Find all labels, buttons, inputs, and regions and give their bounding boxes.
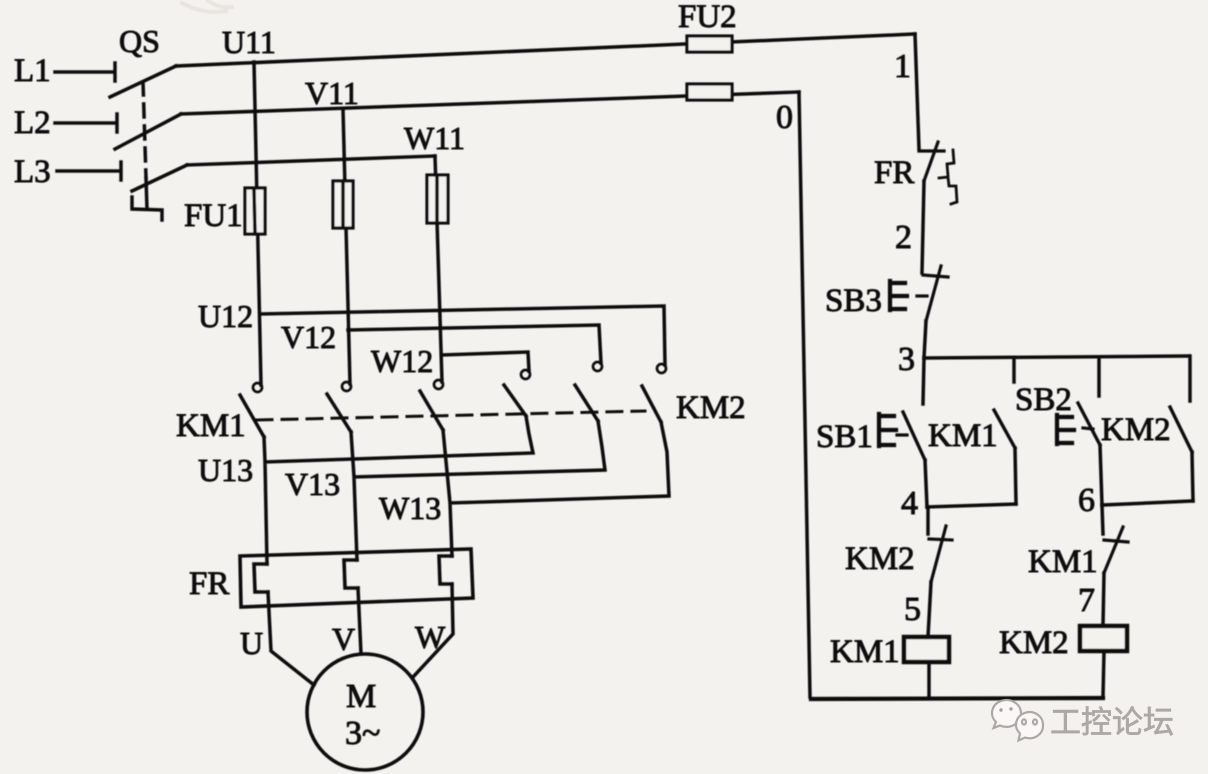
wire node4 bus	[927, 504, 1016, 507]
svg-text:SB1: SB1	[816, 419, 873, 455]
coil KM2	[999, 625, 1127, 661]
wire node2	[922, 181, 924, 273]
wire V11 vertical	[343, 109, 350, 384]
wire node5	[928, 582, 931, 637]
svg-text:W11: W11	[404, 120, 465, 156]
svg-text:FR: FR	[189, 566, 229, 602]
wire FR to motor W	[413, 584, 453, 677]
watermark logo	[992, 700, 1043, 740]
svg-text:U12: U12	[198, 298, 253, 334]
wire V13 bus	[351, 421, 605, 560]
svg-text:5: 5	[904, 591, 921, 628]
wire bottom bus	[811, 698, 1103, 699]
node L3	[14, 154, 121, 190]
svg-text:KM1: KM1	[830, 634, 900, 670]
MAIN_CIRCUIT_START	[182, 1, 232, 12]
wire V11 bus	[181, 92, 799, 114]
wire KM1 coil to bus	[927, 662, 931, 698]
wire U11 bus	[176, 34, 915, 66]
svg-text:W12: W12	[371, 343, 433, 379]
wire V12 to contact5	[348, 325, 601, 363]
thermal relay FR heaters	[189, 549, 473, 607]
node L2	[14, 105, 117, 141]
svg-text:KM1: KM1	[176, 408, 246, 444]
wire drop to KM2 aux	[1188, 356, 1192, 401]
wire W12 to contact4	[442, 352, 529, 371]
pushbutton SB2	[1015, 382, 1102, 505]
svg-text:KM2: KM2	[845, 541, 915, 577]
wire mechanical linkage dashed	[257, 411, 645, 420]
wire SB1 to node4	[925, 460, 927, 507]
svg-text:M: M	[346, 678, 376, 715]
svg-text:L2: L2	[14, 105, 51, 141]
wire KM2 coil to bus	[1103, 651, 1104, 697]
svg-text:4: 4	[901, 485, 918, 522]
pushbutton SB1	[816, 412, 925, 460]
svg-text:3~: 3~	[345, 715, 380, 752]
node L1	[14, 53, 115, 89]
svg-text:6: 6	[1078, 482, 1095, 519]
thermal relay FR contact	[874, 142, 957, 204]
wire FR to motor U	[268, 592, 314, 685]
motor M 3~	[307, 654, 423, 770]
svg-text:KM2: KM2	[1101, 412, 1171, 448]
wire U12 to contact6	[260, 306, 665, 365]
coil KM1	[830, 634, 949, 670]
contactor KM1 main contacts	[176, 380, 443, 444]
wire drop to KM1 aux	[1012, 358, 1016, 382]
svg-text:V: V	[332, 621, 355, 657]
contact KM2 interlock	[845, 507, 952, 582]
wire node3 to SB1	[923, 358, 924, 404]
svg-text:L3: L3	[14, 154, 51, 190]
svg-text:KM1: KM1	[928, 418, 998, 454]
svg-text:L1: L1	[14, 53, 51, 89]
svg-text:U: U	[240, 625, 263, 661]
svg-text:V12: V12	[281, 319, 336, 355]
svg-text:0: 0	[776, 99, 793, 136]
wire U13 bus	[264, 416, 533, 564]
svg-text:工控论坛: 工控论坛	[1050, 705, 1174, 740]
svg-text:FU1: FU1	[184, 198, 243, 234]
svg-text:7: 7	[1078, 582, 1095, 619]
svg-text:SB3: SB3	[825, 283, 882, 319]
svg-text:KM2: KM2	[999, 625, 1069, 661]
contact KM1 auxiliary	[928, 410, 1016, 504]
svg-text:KM1: KM1	[1028, 544, 1098, 580]
wire W11 vertical	[435, 156, 442, 382]
svg-text:FU2: FU2	[678, 0, 737, 35]
wire U11 vertical	[254, 62, 261, 385]
wire node1 drop	[915, 34, 919, 149]
wire W11 bus	[187, 156, 435, 165]
svg-text:U13: U13	[198, 452, 253, 488]
contactor KM2 main contacts	[504, 362, 746, 426]
wire node3 bus	[924, 356, 1189, 358]
wire node6 bus	[1102, 501, 1193, 505]
svg-text:W13: W13	[379, 490, 441, 526]
pushbutton SB3	[825, 266, 948, 321]
svg-text:W: W	[415, 619, 446, 655]
switch QS	[110, 23, 187, 220]
svg-text:V13: V13	[285, 466, 340, 502]
wire node7	[1103, 573, 1104, 626]
wire drop to SB2	[1097, 357, 1101, 396]
contact KM2 auxiliary	[1101, 407, 1193, 501]
svg-text:1: 1	[894, 48, 911, 85]
svg-text:FR: FR	[874, 155, 914, 191]
wire node3	[924, 321, 926, 358]
wire FR to motor V	[358, 588, 361, 654]
wire node0 drop	[799, 92, 810, 697]
contact KM1 interlock	[1028, 505, 1128, 580]
fuse FU1	[184, 175, 448, 234]
svg-text:KM2: KM2	[676, 390, 746, 426]
svg-text:V11: V11	[305, 75, 359, 111]
svg-text:QS: QS	[119, 23, 160, 59]
wire W13 bus	[443, 422, 669, 556]
svg-text:U11: U11	[222, 24, 276, 60]
fuse FU2	[678, 0, 737, 100]
svg-text:SB2: SB2	[1015, 382, 1072, 418]
svg-text:2: 2	[895, 219, 912, 256]
svg-text:3: 3	[898, 341, 915, 378]
